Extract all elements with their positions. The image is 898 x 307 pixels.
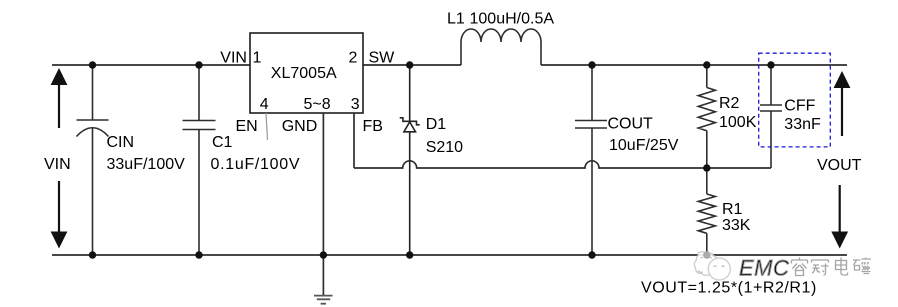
wire FB pin down — [353, 113, 355, 168]
op-amp U1 XL7005A box — [250, 33, 363, 113]
watermark glyph 电 — [836, 258, 848, 276]
svg-text:XL7005A: XL7005A — [271, 65, 337, 82]
node CIN bottom — [89, 251, 96, 258]
svg-text:VIN: VIN — [44, 156, 71, 173]
node COUT top — [588, 61, 595, 68]
svg-text:L1: L1 — [447, 11, 465, 28]
port VOUT down arrow — [831, 185, 848, 249]
svg-text:EN: EN — [236, 118, 258, 135]
inductor L1 — [461, 29, 541, 65]
svg-text:EMC: EMC — [739, 256, 789, 281]
node SW/D1 — [406, 61, 413, 68]
svg-text:D1: D1 — [426, 116, 447, 133]
svg-text:S210: S210 — [426, 139, 463, 156]
svg-text:R2: R2 — [719, 95, 740, 112]
capacitor C1 — [183, 65, 216, 255]
svg-text:5~8: 5~8 — [304, 96, 331, 113]
svg-text:100K: 100K — [719, 114, 757, 131]
svg-text:3: 3 — [351, 96, 360, 113]
resistor R1 — [698, 168, 715, 255]
wire GND pin to bottom rail — [322, 113, 324, 255]
node COUT bottom — [588, 251, 595, 258]
svg-text:GND: GND — [282, 118, 318, 135]
node CIN top — [89, 61, 96, 68]
port VIN down arrow — [51, 181, 68, 249]
svg-text:2: 2 — [349, 50, 358, 67]
svg-text:VOUT=1.25*(1+R2/R1): VOUT=1.25*(1+R2/R1) — [641, 280, 817, 297]
svg-text:R1: R1 — [722, 201, 743, 218]
wire bottom rail (ground net) — [52, 254, 847, 256]
svg-text:10uF/25V: 10uF/25V — [609, 137, 679, 154]
wire top rail SW (pin2 to L1) — [363, 64, 461, 66]
svg-text:CIN: CIN — [107, 134, 135, 151]
diode D1 S210 — [400, 65, 420, 255]
wire top rail left (VIN+ to pin1) — [52, 64, 250, 66]
watermark glyph 容 — [792, 258, 808, 276]
node R1 bottom — [703, 251, 710, 258]
node D1 bottom — [406, 251, 413, 258]
node FB divider — [703, 164, 710, 171]
port VIN up arrow — [51, 68, 68, 128]
svg-text:4: 4 — [260, 96, 269, 113]
svg-text:SW: SW — [369, 50, 396, 67]
port VOUT up arrow — [834, 71, 851, 136]
node GND pin bottom — [320, 251, 327, 258]
watermark logo clouds — [694, 252, 730, 280]
wire FB net horizontal with hops — [354, 161, 771, 168]
svg-text:33nF: 33nF — [784, 116, 821, 133]
svg-text:FB: FB — [363, 118, 383, 135]
svg-text:100uH/0.5A: 100uH/0.5A — [470, 11, 555, 28]
svg-text:1: 1 — [253, 50, 262, 67]
resistor R2 — [698, 65, 715, 168]
svg-text:VIN: VIN — [220, 50, 247, 67]
watermark glyph 冠 — [812, 260, 829, 275]
node C1 bottom — [195, 251, 202, 258]
svg-text:C1: C1 — [212, 134, 233, 151]
node R2 top — [703, 61, 710, 68]
node R1 bottom seen through watermark — [703, 251, 710, 258]
watermark logo faces — [698, 257, 725, 272]
wire EN stub (pin 4, floating) — [266, 113, 268, 140]
dashed highlight box around CFF — [759, 53, 831, 147]
ground — [314, 255, 333, 304]
svg-text:0.1uF/100V: 0.1uF/100V — [211, 156, 301, 173]
node C1 top — [195, 61, 202, 68]
svg-text:CFF: CFF — [784, 98, 815, 115]
svg-text:33K: 33K — [722, 217, 751, 234]
node junction dots top rail — [89, 61, 775, 258]
capacitor COUT — [575, 65, 607, 255]
capacitor CIN (electrolytic) — [77, 65, 109, 255]
svg-text:VOUT: VOUT — [817, 157, 862, 174]
wire top rail VOUT (L1 to output) — [541, 64, 847, 66]
svg-text:COUT: COUT — [608, 116, 654, 133]
svg-text:33uF/100V: 33uF/100V — [107, 156, 186, 173]
node CFF top — [767, 61, 774, 68]
watermark glyph 磁 — [853, 258, 871, 274]
capacitor CFF — [760, 65, 782, 168]
